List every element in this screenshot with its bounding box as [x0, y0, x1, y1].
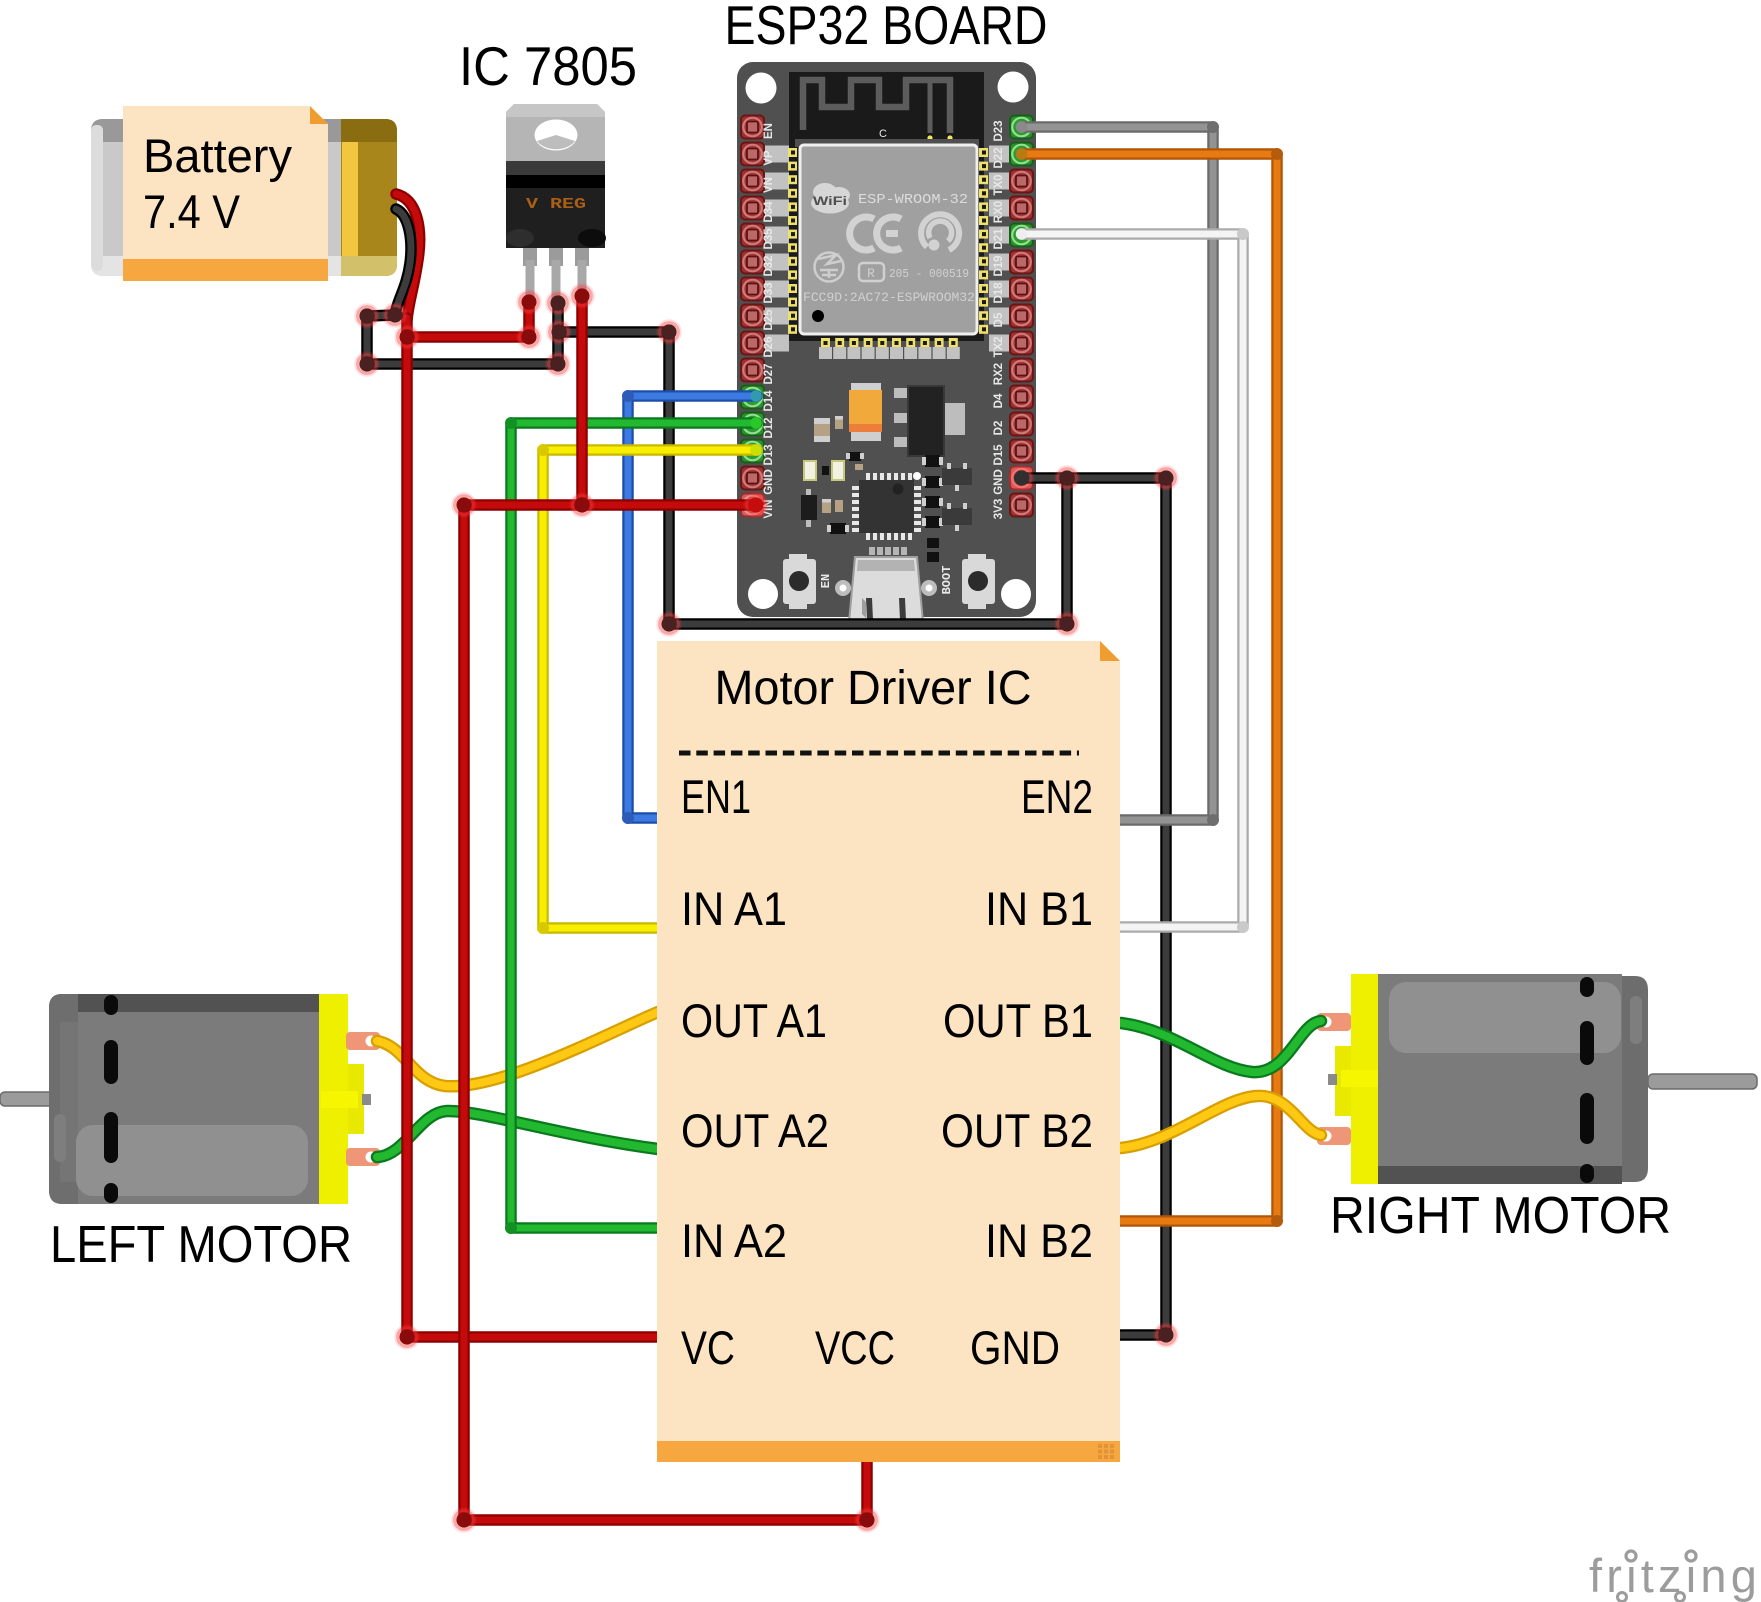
junction red corner [856, 1509, 879, 1532]
svg-text:VC: VC [681, 1321, 735, 1374]
svg-text:D32: D32 [763, 255, 775, 276]
svg-text:TX0: TX0 [993, 174, 1005, 195]
svg-text:Battery: Battery [143, 129, 292, 182]
motor driver IC note [657, 641, 1120, 1462]
svg-text:D2: D2 [993, 421, 1005, 436]
svg-text:OUT A2: OUT A2 [681, 1104, 829, 1157]
micro USB connector [835, 547, 937, 622]
svg-text:ESP-WROOM-32: ESP-WROOM-32 [858, 193, 968, 208]
wire red battery+ to VC [407, 318, 658, 1337]
svg-text:D26: D26 [763, 336, 775, 357]
terminal red at 7805 OUT [571, 285, 594, 308]
svg-text:FCC9D:2AC72-ESPWROOM32: FCC9D:2AC72-ESPWROOM32 [803, 291, 975, 305]
junction red T battery+ [396, 326, 419, 349]
svg-text:RX2: RX2 [993, 363, 1005, 385]
bend green [505, 417, 517, 429]
svg-text:D33: D33 [763, 282, 775, 303]
svg-text:OUT B2: OUT B2 [941, 1104, 1093, 1157]
terminal black at ESP32 GND [1010, 467, 1033, 490]
junction black T at 7805 [548, 321, 571, 344]
svg-text:C: C [879, 128, 887, 140]
terminal red at ESP32 VIN [745, 494, 768, 517]
bend white [1237, 921, 1249, 933]
svg-text:GND: GND [970, 1321, 1060, 1374]
svg-text:Motor Driver IC: Motor Driver IC [715, 662, 1032, 715]
junction black corner [356, 353, 379, 376]
junction red corner [453, 1509, 476, 1532]
wire black ESP32 GND to driver GND [1022, 478, 1167, 1335]
svg-text:RIGHT MOTOR: RIGHT MOTOR [1330, 1187, 1671, 1245]
cap yellow at D13 [750, 444, 762, 456]
svg-text:D21: D21 [993, 228, 1005, 250]
junction black corner [1155, 467, 1178, 490]
ESP32 SMD components [801, 383, 972, 562]
wire red rail to driver VCC [464, 505, 867, 1520]
svg-text:D22: D22 [993, 147, 1005, 168]
junction red T on rail [571, 494, 594, 517]
wire red 7805 OUT down [576, 296, 588, 505]
svg-text:LEFT MOTOR: LEFT MOTOR [50, 1216, 352, 1274]
wire yellow D13 to IN A1 [543, 450, 757, 928]
bend yellow [537, 444, 549, 456]
junction red corner at VC [396, 1326, 419, 1349]
svg-text:D34: D34 [763, 201, 775, 223]
svg-text:D4: D4 [993, 393, 1005, 408]
wire black GND branch under ESP32 [559, 332, 1067, 624]
right motor M2 [1317, 974, 1757, 1184]
cap gray at D23 [1016, 121, 1028, 133]
svg-text:GND: GND [993, 469, 1005, 495]
svg-text:205 - 000519: 205 - 000519 [889, 268, 969, 281]
wire blue D14 to EN1 [628, 396, 757, 818]
ESP32 pin traces [765, 146, 1010, 352]
svg-text:EN2: EN2 [1021, 770, 1093, 823]
left motor M1 [0, 994, 380, 1204]
svg-text:IN A2: IN A2 [681, 1214, 787, 1267]
ESP32 board U1 [737, 62, 1036, 617]
svg-text:3V3: 3V3 [993, 499, 1005, 519]
bend gray [1207, 814, 1219, 826]
bend yellow [537, 922, 549, 934]
svg-text:7.4 V: 7.4 V [143, 185, 241, 238]
junction black corner [547, 353, 570, 376]
wire green OUT B1 to right motor + [1121, 1021, 1321, 1072]
cap blue at D14 [750, 390, 762, 402]
ESP-WROOM-32 module [795, 139, 979, 334]
svg-text:D35: D35 [763, 228, 775, 250]
bend gray [1207, 121, 1219, 133]
svg-text:EN: EN [819, 574, 833, 588]
cap white at D21 [1016, 228, 1028, 240]
junction black corner [1056, 613, 1079, 636]
svg-text:OUT B1: OUT B1 [943, 994, 1093, 1047]
wire black battery- to 7805 GND [367, 303, 558, 364]
svg-text:D5: D5 [993, 312, 1005, 327]
svg-text:ESP32 BOARD: ESP32 BOARD [725, 0, 1048, 56]
svg-text:D13: D13 [763, 444, 775, 465]
bend green [505, 1222, 517, 1234]
wire gold OUT A1 to left motor + [377, 1012, 658, 1086]
svg-text:TX2: TX2 [993, 336, 1005, 357]
bend orange [1271, 148, 1283, 160]
junction black corner [658, 321, 681, 344]
wire red battery+ to 7805 IN [407, 302, 529, 337]
svg-text:V REG: V REG [526, 196, 586, 213]
junction black T at GND row [1056, 467, 1079, 490]
battery BT1 7.4V body [91, 119, 397, 276]
fritzing watermark [1589, 1549, 1761, 1602]
wire red battery+ [396, 194, 420, 320]
voltage regulator IC 7805 [506, 104, 606, 300]
wire green D12 to IN A2 [511, 423, 757, 1228]
svg-text:VN: VN [763, 177, 775, 193]
svg-text:VP: VP [763, 150, 775, 166]
svg-text:EN: EN [763, 123, 775, 139]
svg-text:EN1: EN1 [681, 770, 751, 823]
svg-text:VCC: VCC [815, 1321, 895, 1374]
wire green OUT A2 to left motor - [377, 1111, 658, 1157]
wire gold OUT B2 to right motor - [1121, 1096, 1321, 1148]
module side pads [788, 148, 988, 334]
svg-text:OUT A1: OUT A1 [681, 994, 827, 1047]
junction black battery bend [384, 304, 407, 327]
svg-text:D14: D14 [763, 390, 775, 412]
EN button [783, 554, 816, 609]
terminal red at 7805 IN [518, 291, 541, 314]
svg-text:WiFi: WiFi [813, 194, 847, 208]
svg-text:IN B2: IN B2 [985, 1214, 1093, 1267]
svg-text:D23: D23 [993, 120, 1005, 141]
BOOT button [962, 554, 995, 609]
bend blue [622, 390, 634, 402]
svg-text:IC 7805: IC 7805 [459, 35, 637, 97]
junction black corner [356, 305, 379, 328]
junction red corner [518, 326, 541, 349]
wire red rail to ESP32 VIN [464, 499, 756, 511]
svg-text:R: R [867, 266, 875, 281]
cap green at D12 [750, 417, 762, 429]
wire black battery- [395, 209, 411, 315]
svg-text:RX0: RX0 [993, 201, 1005, 223]
bend blue [622, 812, 634, 824]
ESP32 pin headers [741, 116, 1033, 517]
svg-text:D25: D25 [763, 309, 775, 331]
svg-text:D18: D18 [993, 282, 1005, 304]
svg-text:D12: D12 [763, 417, 775, 438]
svg-text:IN A1: IN A1 [681, 882, 787, 935]
svg-text:BOOT: BOOT [940, 566, 954, 595]
svg-text:GND: GND [763, 469, 775, 495]
svg-text:D15: D15 [993, 444, 1005, 466]
wire orange D22 to IN B2 [1022, 154, 1277, 1221]
battery note label [123, 106, 328, 281]
wire white D21 to IN B1 [1022, 234, 1243, 927]
cap orange at D22 [1016, 148, 1028, 160]
module bottom pads [819, 338, 960, 359]
svg-text:IN B1: IN B1 [985, 882, 1093, 935]
junction black corner at driver GND [1155, 1324, 1178, 1347]
ESP32 pin labels [763, 120, 1005, 519]
svg-text:D19: D19 [993, 255, 1005, 276]
bend white [1237, 228, 1249, 240]
svg-text:D27: D27 [763, 363, 775, 384]
junction red T rail left [453, 494, 476, 517]
wire gray D23 to EN2 [1022, 127, 1213, 820]
terminal black at 7805 GND [547, 292, 570, 315]
junction black corner under ESP32 [658, 613, 681, 636]
bend orange [1271, 1215, 1283, 1227]
